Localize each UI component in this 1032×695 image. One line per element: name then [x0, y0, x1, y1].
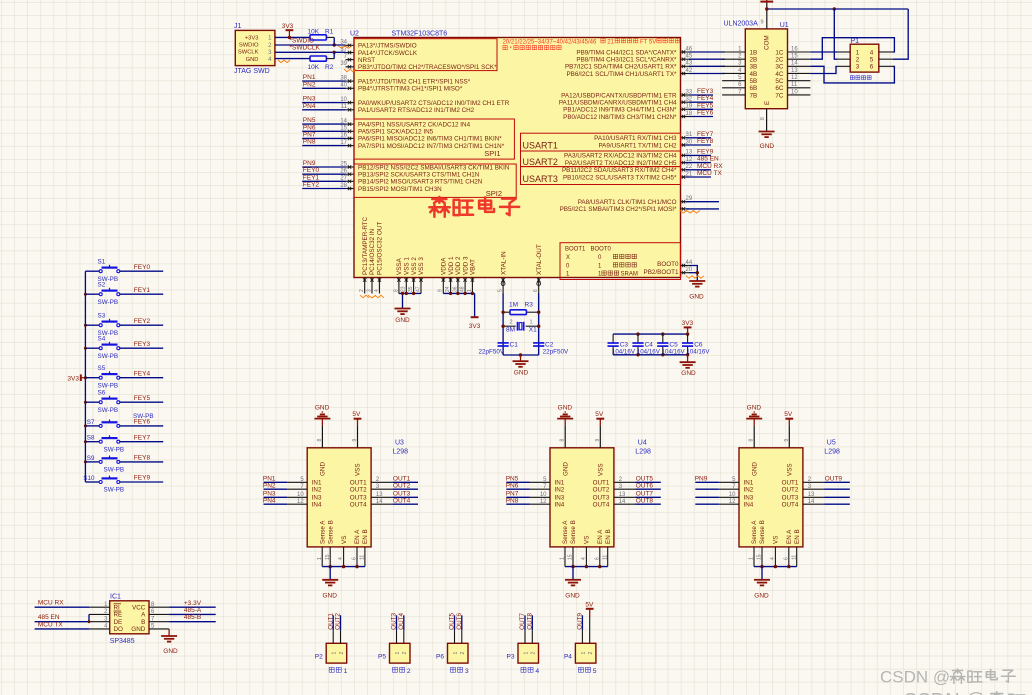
svg-text:7B: 7B [750, 92, 758, 99]
U4 output pins [593, 477, 635, 509]
svg-text:U1: U1 [780, 22, 789, 29]
svg-text:4C: 4C [775, 71, 784, 78]
svg-text:11: 11 [791, 555, 797, 560]
svg-text:S2: S2 [98, 281, 106, 288]
svg-text:3V3: 3V3 [282, 23, 294, 30]
wire P3 pin1 OUT7 [519, 613, 526, 631]
svg-text:JTAG SWD: JTAG SWD [234, 68, 270, 75]
svg-text:OUT8: OUT8 [636, 497, 654, 504]
switch S1 SW-PB [85, 258, 163, 282]
svg-text:MCU TX: MCU TX [697, 170, 722, 177]
svg-text:PA5/SPI1 SCK/ADC12 IN5: PA5/SPI1 SCK/ADC12 IN5 [358, 129, 434, 136]
switch S2 SW-PB [85, 281, 163, 305]
svg-text:OUT9: OUT9 [577, 613, 584, 630]
svg-text:OUT8: OUT8 [527, 613, 534, 630]
svg-text:6: 6 [870, 64, 874, 71]
driver U3 L298 body [307, 440, 408, 547]
svg-text:OUT2: OUT2 [782, 487, 799, 494]
svg-text:36: 36 [452, 286, 458, 292]
svg-text:CSDN @: CSDN @ [903, 690, 986, 695]
svg-text:PA1/USART2 RTS/ADC12 IN1/TIM2: PA1/USART2 RTS/ADC12 IN1/TIM2 CH2 [358, 107, 475, 114]
svg-text:13: 13 [808, 492, 815, 498]
svg-text:IN4: IN4 [312, 502, 322, 509]
U5 VSS pin to 5V [784, 419, 790, 448]
svg-text:485-A: 485-A [184, 607, 202, 614]
svg-text:14: 14 [619, 499, 626, 505]
svg-text:15: 15 [325, 554, 331, 560]
svg-text:5: 5 [498, 289, 504, 292]
svg-text:OUT9: OUT9 [825, 476, 843, 483]
svg-text:5V: 5V [595, 411, 604, 418]
svg-text:9: 9 [784, 439, 790, 442]
svg-text:X1: X1 [529, 327, 537, 334]
BOOT config table [560, 243, 681, 280]
svg-text:BOOT0: BOOT0 [657, 261, 679, 268]
transceiver IC1 SP3485 body [110, 594, 149, 645]
svg-text:2: 2 [339, 652, 345, 655]
svg-text:VSS: VSS [598, 463, 605, 476]
wires PN1-PN9 FEY0-FEY2 to U2 left [302, 74, 345, 188]
svg-text:PB12/SPI2 NSS/I2C2 SMBAI/USART: PB12/SPI2 NSS/I2C2 SMBAI/USART3 CK/TIM1 … [358, 164, 510, 171]
svg-text:4: 4 [338, 557, 344, 560]
svg-text:PN9: PN9 [303, 160, 316, 167]
svg-text:GND: GND [565, 592, 580, 599]
svg-text:L298: L298 [824, 449, 840, 456]
svg-text:EN A: EN A [354, 529, 361, 544]
svg-text:GND: GND [395, 317, 410, 324]
svg-text:OUT6: OUT6 [636, 482, 654, 489]
svg-text:U3: U3 [395, 440, 404, 447]
wires FEY7-MCU TX [686, 131, 723, 177]
svg-text:2: 2 [359, 289, 365, 292]
ground U5 bottom [754, 580, 770, 600]
svg-text:3V3: 3V3 [469, 323, 481, 330]
power 5V at P4 [585, 601, 594, 630]
svg-text:STM32F103C8T6: STM32F103C8T6 [392, 31, 448, 38]
svg-text:PN9: PN9 [695, 476, 708, 483]
svg-text:PA15*/JTDI/TIM2 CH1 ETR*/SPI1: PA15*/JTDI/TIM2 CH1 ETR*/SPI1 NSS* [358, 78, 471, 85]
svg-text:VSSA: VSSA [396, 257, 403, 275]
svg-text:1: 1 [530, 320, 533, 326]
svg-text:IC1: IC1 [110, 594, 121, 601]
svg-text:FEY2: FEY2 [134, 318, 151, 325]
svg-text:OUT5: OUT5 [449, 613, 456, 630]
U3 bottom pins [317, 520, 369, 567]
svg-text:J1: J1 [234, 23, 242, 30]
svg-text:1B: 1B [750, 49, 758, 56]
U3 VSS pin to 5V [352, 419, 358, 448]
svg-text:8: 8 [393, 289, 399, 292]
wire P5 pin2 OUT4 [398, 613, 405, 631]
wires U4 outputs [635, 476, 661, 505]
svg-text:S1: S1 [98, 258, 106, 265]
svg-text:1: 1 [560, 557, 566, 560]
svg-text:FEY2: FEY2 [303, 182, 320, 189]
U2 right pins [559, 46, 693, 213]
wires U4 inputs [506, 476, 530, 505]
svg-text:2B: 2B [750, 56, 758, 63]
svg-text:C2: C2 [545, 341, 554, 348]
svg-text:VSS: VSS [787, 463, 794, 476]
svg-text:USART3: USART3 [523, 174, 558, 184]
svg-text:PB4*/JTRST/TIM3 CH1*/SPI1 MISO: PB4*/JTRST/TIM3 CH1*/SPI1 MISO* [358, 86, 463, 93]
svg-text:5V: 5V [784, 411, 793, 418]
switch S8 SW-PB [85, 434, 163, 453]
svg-text:SW-PB: SW-PB [98, 353, 119, 360]
svg-text:8: 8 [749, 439, 755, 442]
svg-text:B: B [141, 619, 145, 626]
svg-text:10K: 10K [308, 64, 320, 71]
svg-text:10: 10 [791, 89, 798, 95]
svg-text:SW-PB: SW-PB [104, 467, 125, 474]
svg-text:U4: U4 [638, 440, 647, 447]
svg-text:FEY6: FEY6 [697, 110, 714, 117]
svg-text:FT 5V: FT 5V [640, 39, 656, 45]
power 5V at COM [760, 0, 773, 2]
svg-text:OUT2: OUT2 [393, 482, 411, 489]
svg-text:PA9/USART1 TX/TIM1 CH2: PA9/USART1 TX/TIM1 CH2 [598, 142, 677, 149]
power 5V U4 [595, 411, 604, 419]
svg-text:PB13/SPI2 SCK/USART3 CTS/TIM1: PB13/SPI2 SCK/USART3 CTS/TIM1 CH1N [358, 172, 480, 179]
svg-text:MCU RX: MCU RX [697, 163, 723, 170]
svg-text:SPI2: SPI2 [486, 189, 502, 198]
svg-text:2: 2 [407, 668, 411, 675]
svg-text:PN5: PN5 [303, 117, 316, 124]
svg-text:1: 1 [467, 289, 473, 292]
svg-text:6: 6 [352, 557, 358, 560]
svg-text:PN6: PN6 [506, 482, 519, 489]
svg-text:FEY4: FEY4 [697, 95, 714, 102]
wire R1 to SWDIO net [333, 37, 336, 46]
svg-text:PA14*/JTCK/SWCLK: PA14*/JTCK/SWCLK [358, 50, 418, 57]
svg-text:MCU RX: MCU RX [38, 600, 64, 607]
wire 485 EN to IC1 [35, 614, 91, 623]
svg-text:1M: 1M [509, 301, 518, 308]
svg-text:4: 4 [535, 668, 539, 675]
svg-text:9: 9 [438, 289, 444, 292]
svg-text:6: 6 [783, 557, 789, 560]
svg-text:GND: GND [689, 293, 704, 300]
svg-text:PA10/USART1 RX/TIM1 CH3: PA10/USART1 RX/TIM1 CH3 [594, 135, 677, 142]
svg-text:PN4: PN4 [263, 497, 276, 504]
svg-text:ULN2003A: ULN2003A [724, 21, 759, 28]
svg-text:USART2: USART2 [523, 157, 558, 167]
U5 input pins [719, 477, 754, 509]
U4 VSS pin to 5V [595, 419, 601, 448]
U1 COM pin 9 [760, 2, 766, 29]
svg-text:EN A: EN A [786, 529, 793, 544]
svg-text:3: 3 [366, 289, 372, 292]
wires U5 inputs [695, 476, 719, 505]
svg-text:14: 14 [808, 499, 815, 505]
wire SWDIO J1.2 to U2.34 [275, 37, 352, 48]
wire 4C to P1.3 [810, 66, 837, 73]
svg-text:IN2: IN2 [312, 487, 322, 494]
svg-text:6: 6 [533, 289, 539, 292]
svg-text:S5: S5 [98, 365, 106, 372]
svg-text:PN2: PN2 [263, 482, 276, 489]
wire MCU TX to IC1 [35, 621, 89, 629]
svg-text:21: 21 [607, 39, 614, 45]
svg-text:2: 2 [588, 652, 594, 655]
red group box USART2 [521, 151, 681, 167]
capacitor C5 104/16V [657, 334, 685, 355]
svg-text:PB7/I2C1 SDA/TIM4 CH2/USART1 R: PB7/I2C1 SDA/TIM4 CH2/USART1 RX* [565, 64, 677, 71]
wires U5 outputs [824, 476, 850, 505]
svg-text:OUT4: OUT4 [398, 613, 405, 630]
svg-text:OUT4: OUT4 [782, 502, 799, 509]
svg-text:+3.3V: +3.3V [184, 600, 202, 607]
svg-text:6: 6 [594, 557, 600, 560]
wire P5 pin1 OUT3 [391, 613, 398, 631]
svg-text:PB0/ADC12 IN8/TIM3 CH3/TIM1 CH: PB0/ADC12 IN8/TIM3 CH3/TIM1 CH2N* [563, 114, 677, 121]
svg-text:VDDA: VDDA [441, 257, 448, 275]
svg-text:DO: DO [114, 626, 124, 633]
wire switch bus 3V3 [84, 271, 87, 482]
svg-text:9: 9 [352, 439, 358, 442]
svg-text:*SWDCLK: *SWDCLK [290, 45, 321, 52]
svg-text:FEY4: FEY4 [134, 370, 151, 377]
svg-text:PN1: PN1 [303, 74, 316, 81]
wire P3 pin2 OUT8 [527, 613, 534, 631]
svg-text:4: 4 [770, 557, 776, 560]
svg-text:11: 11 [791, 82, 798, 88]
U3 top GND pin [317, 419, 323, 448]
wire P6 pin1 OUT5 [449, 613, 456, 631]
svg-text:10: 10 [297, 492, 304, 498]
U5 top GND pin [749, 419, 755, 448]
svg-text:104/16V: 104/16V [662, 348, 686, 355]
svg-text:XTAL-IN: XTAL-IN [500, 251, 507, 275]
wire MCU RX to IC1 [35, 600, 89, 608]
svg-text:RI: RI [114, 605, 121, 612]
svg-text:RE: RE [114, 612, 123, 619]
svg-text:Sense B: Sense B [570, 520, 577, 544]
svg-text:FEY9: FEY9 [697, 148, 714, 155]
svg-text:PN4: PN4 [303, 103, 316, 110]
svg-text:2C: 2C [775, 56, 784, 63]
wire P4 pin1 OUT9 [577, 613, 584, 631]
svg-text:4: 4 [374, 289, 380, 292]
svg-text:GND: GND [558, 405, 573, 412]
svg-text:S8: S8 [87, 435, 95, 442]
svg-text:S9: S9 [87, 455, 95, 462]
svg-text:24: 24 [445, 286, 451, 292]
svg-text:Sense B: Sense B [759, 520, 766, 544]
svg-text:12: 12 [791, 75, 798, 81]
U1 input pins 1B-7B [722, 46, 757, 99]
svg-text:R3: R3 [525, 301, 534, 308]
svg-text:FEY7: FEY7 [697, 131, 714, 138]
svg-text:GND: GND [751, 462, 758, 476]
svg-text:FEY9: FEY9 [134, 475, 151, 482]
svg-text:4: 4 [581, 557, 587, 560]
svg-text:GND: GND [754, 592, 769, 599]
wire 1C to P1.1 [810, 51, 837, 53]
svg-text:XTAL-OUT: XTAL-OUT [536, 244, 543, 275]
svg-text:OUT4: OUT4 [350, 502, 367, 509]
svg-text:SWDIO: SWDIO [239, 43, 259, 49]
ground C6 [680, 355, 696, 377]
svg-text:PC14/OSC32 IN: PC14/OSC32 IN [369, 228, 376, 275]
watermark second line clipped [903, 690, 1025, 695]
svg-text:FEY0: FEY0 [134, 264, 151, 271]
U3 output pins [350, 477, 392, 509]
svg-text:13: 13 [791, 68, 798, 74]
svg-text:9: 9 [595, 439, 601, 442]
svg-text:OUT2: OUT2 [593, 487, 610, 494]
wire U4 bottom bundle [565, 565, 608, 580]
svg-text:485 EN: 485 EN [697, 156, 719, 163]
svg-text:1C: 1C [775, 49, 784, 56]
svg-text:8: 8 [760, 117, 766, 120]
svg-text:EN B: EN B [362, 529, 369, 544]
svg-text:BOOT1: BOOT1 [565, 246, 586, 252]
wire BOOT pins to GND [689, 266, 699, 282]
svg-text:FEY1: FEY1 [134, 287, 151, 294]
svg-text:48: 48 [460, 286, 466, 292]
ground XTAL [513, 353, 529, 376]
svg-text:BOOT0: BOOT0 [591, 246, 612, 252]
svg-text:39: 39 [340, 61, 347, 67]
svg-text:EN B: EN B [605, 529, 612, 544]
svg-text:PB6/I2C1 SCL/TIM4 CH1/USART1 T: PB6/I2C1 SCL/TIM4 CH1/USART1 TX* [566, 71, 677, 78]
connector P4 motor 5 [564, 630, 597, 675]
svg-text:GND: GND [681, 370, 696, 377]
svg-text:5V: 5V [352, 411, 361, 418]
svg-text:11: 11 [602, 555, 608, 560]
svg-text:FEY8: FEY8 [134, 455, 151, 462]
svg-text:1: 1 [749, 557, 755, 560]
red group box JTAG pins [354, 39, 497, 71]
svg-text:1: 1 [453, 652, 459, 655]
ground U5 top [746, 405, 762, 419]
svg-text:OUT2: OUT2 [335, 613, 342, 630]
svg-text:P6: P6 [436, 653, 444, 660]
svg-text:16: 16 [791, 46, 798, 52]
svg-text:VS: VS [584, 536, 591, 544]
svg-text:P3: P3 [507, 653, 515, 660]
svg-text:VDD 1: VDD 1 [448, 256, 455, 275]
svg-text:GND: GND [246, 57, 259, 63]
wire U5 bottom bundle [754, 565, 797, 580]
svg-text:10K: 10K [308, 28, 320, 35]
red group box USART3 [521, 167, 681, 185]
U3 input pins [287, 477, 322, 509]
wire +3.3V from VCC [169, 600, 216, 607]
svg-text:1: 1 [395, 652, 401, 655]
svg-text:5: 5 [593, 668, 597, 675]
svg-text:FEY3: FEY3 [697, 88, 714, 95]
ground U3 bottom [322, 580, 338, 600]
svg-text:SW-PB: SW-PB [98, 299, 119, 306]
svg-text:FEY5: FEY5 [697, 102, 714, 109]
power 3V3 switch bus [67, 374, 86, 382]
svg-text:PN3: PN3 [303, 96, 316, 103]
power 3V3 at C6 [682, 320, 694, 334]
svg-text:PA0/WKUP/USART2 CTS/ADC12 IN0/: PA0/WKUP/USART2 CTS/ADC12 IN0/TIM2 CH1 E… [358, 100, 510, 107]
svg-text:15: 15 [791, 53, 798, 59]
ground VSS [395, 309, 411, 324]
svg-text:4B: 4B [750, 71, 758, 78]
svg-text:OUT2: OUT2 [350, 487, 367, 494]
svg-text:8: 8 [317, 439, 323, 442]
svg-text:6B: 6B [750, 85, 758, 92]
capacitor C2 22pF50V [533, 341, 569, 355]
svg-text:CSDN @: CSDN @ [880, 668, 950, 687]
svg-text:SRAM: SRAM [621, 272, 638, 278]
svg-text:U2: U2 [350, 31, 359, 38]
svg-text:P2: P2 [315, 653, 323, 660]
svg-text:VBAT: VBAT [470, 259, 477, 275]
svg-text:47: 47 [415, 286, 421, 292]
wire J1.4 GND row [275, 59, 310, 63]
svg-text:S4: S4 [98, 335, 106, 342]
svg-text:PA2/USART2 TX/ADC12 IN2/TIM2 C: PA2/USART2 TX/ADC12 IN2/TIM2 CH5 [565, 160, 677, 167]
wires PA8 PB5 dangling [680, 202, 719, 213]
svg-text:Sense A: Sense A [562, 520, 569, 544]
watermark CSDN [880, 668, 1015, 687]
svg-text:PB2/BOOT1: PB2/BOOT1 [644, 269, 679, 276]
svg-text:PC13/TAMPER-RTC: PC13/TAMPER-RTC [362, 216, 369, 275]
svg-text:VSS 2: VSS 2 [411, 257, 418, 275]
svg-text:GND: GND [315, 405, 330, 412]
connector P1 stepper motor [837, 38, 893, 80]
U2 left pins [340, 40, 510, 193]
svg-text:S3: S3 [98, 312, 106, 319]
wire decoupling top rail [613, 332, 689, 335]
svg-text:6C: 6C [775, 85, 784, 92]
svg-text:PA6/SPI1 MISO/ADC12 IN6/TIM3 C: PA6/SPI1 MISO/ADC12 IN6/TIM3 CH1/TIM1 BK… [358, 136, 502, 143]
svg-text:5V: 5V [585, 601, 594, 608]
svg-text:FEY0: FEY0 [303, 167, 320, 174]
wire P2 pin1 OUT1 [327, 613, 334, 631]
svg-text:20/21/22/25~34/37~40/42/43/45/: 20/21/22/25~34/37~40/42/43/45/46 [503, 39, 597, 45]
svg-text:VSS 1: VSS 1 [404, 257, 411, 275]
svg-text:FEY6: FEY6 [134, 419, 151, 426]
svg-text:PC15/OSC32 OUT: PC15/OSC32 OUT [377, 222, 384, 275]
svg-text:VDD 3: VDD 3 [462, 256, 469, 275]
compile wavy PC13-PC15 [360, 295, 384, 298]
wires FEY3-FEY6 [689, 88, 714, 117]
svg-text:OUT3: OUT3 [391, 613, 398, 630]
svg-text:5B: 5B [750, 78, 758, 85]
compile wavy NRST [344, 69, 356, 72]
svg-text:FEY1: FEY1 [303, 174, 320, 181]
svg-text:+3V3: +3V3 [245, 36, 259, 42]
capacitor C1 22pF50V [479, 341, 519, 355]
svg-text:14: 14 [791, 61, 798, 67]
svg-text:2: 2 [460, 652, 466, 655]
wire VSS bundle [399, 292, 421, 309]
svg-text:1: 1 [332, 652, 338, 655]
svg-text:485-B: 485-B [184, 614, 201, 621]
U5 bottom pins [749, 520, 801, 567]
svg-text:485 EN: 485 EN [38, 614, 60, 621]
svg-text:U5: U5 [827, 440, 836, 447]
wire J1.1 3V3 row [275, 36, 310, 39]
svg-text:Sense A: Sense A [319, 520, 326, 544]
svg-text:1: 1 [581, 652, 587, 655]
svg-text:S10: S10 [83, 475, 95, 482]
svg-text:5C: 5C [775, 78, 784, 85]
svg-text:OUT7: OUT7 [519, 613, 526, 630]
svg-text:3B: 3B [750, 64, 758, 71]
U4 input pins [530, 477, 565, 509]
svg-text:SW-PB: SW-PB [104, 487, 125, 494]
wire U3 bottom bundle [322, 565, 365, 580]
svg-text:GND: GND [322, 592, 337, 599]
